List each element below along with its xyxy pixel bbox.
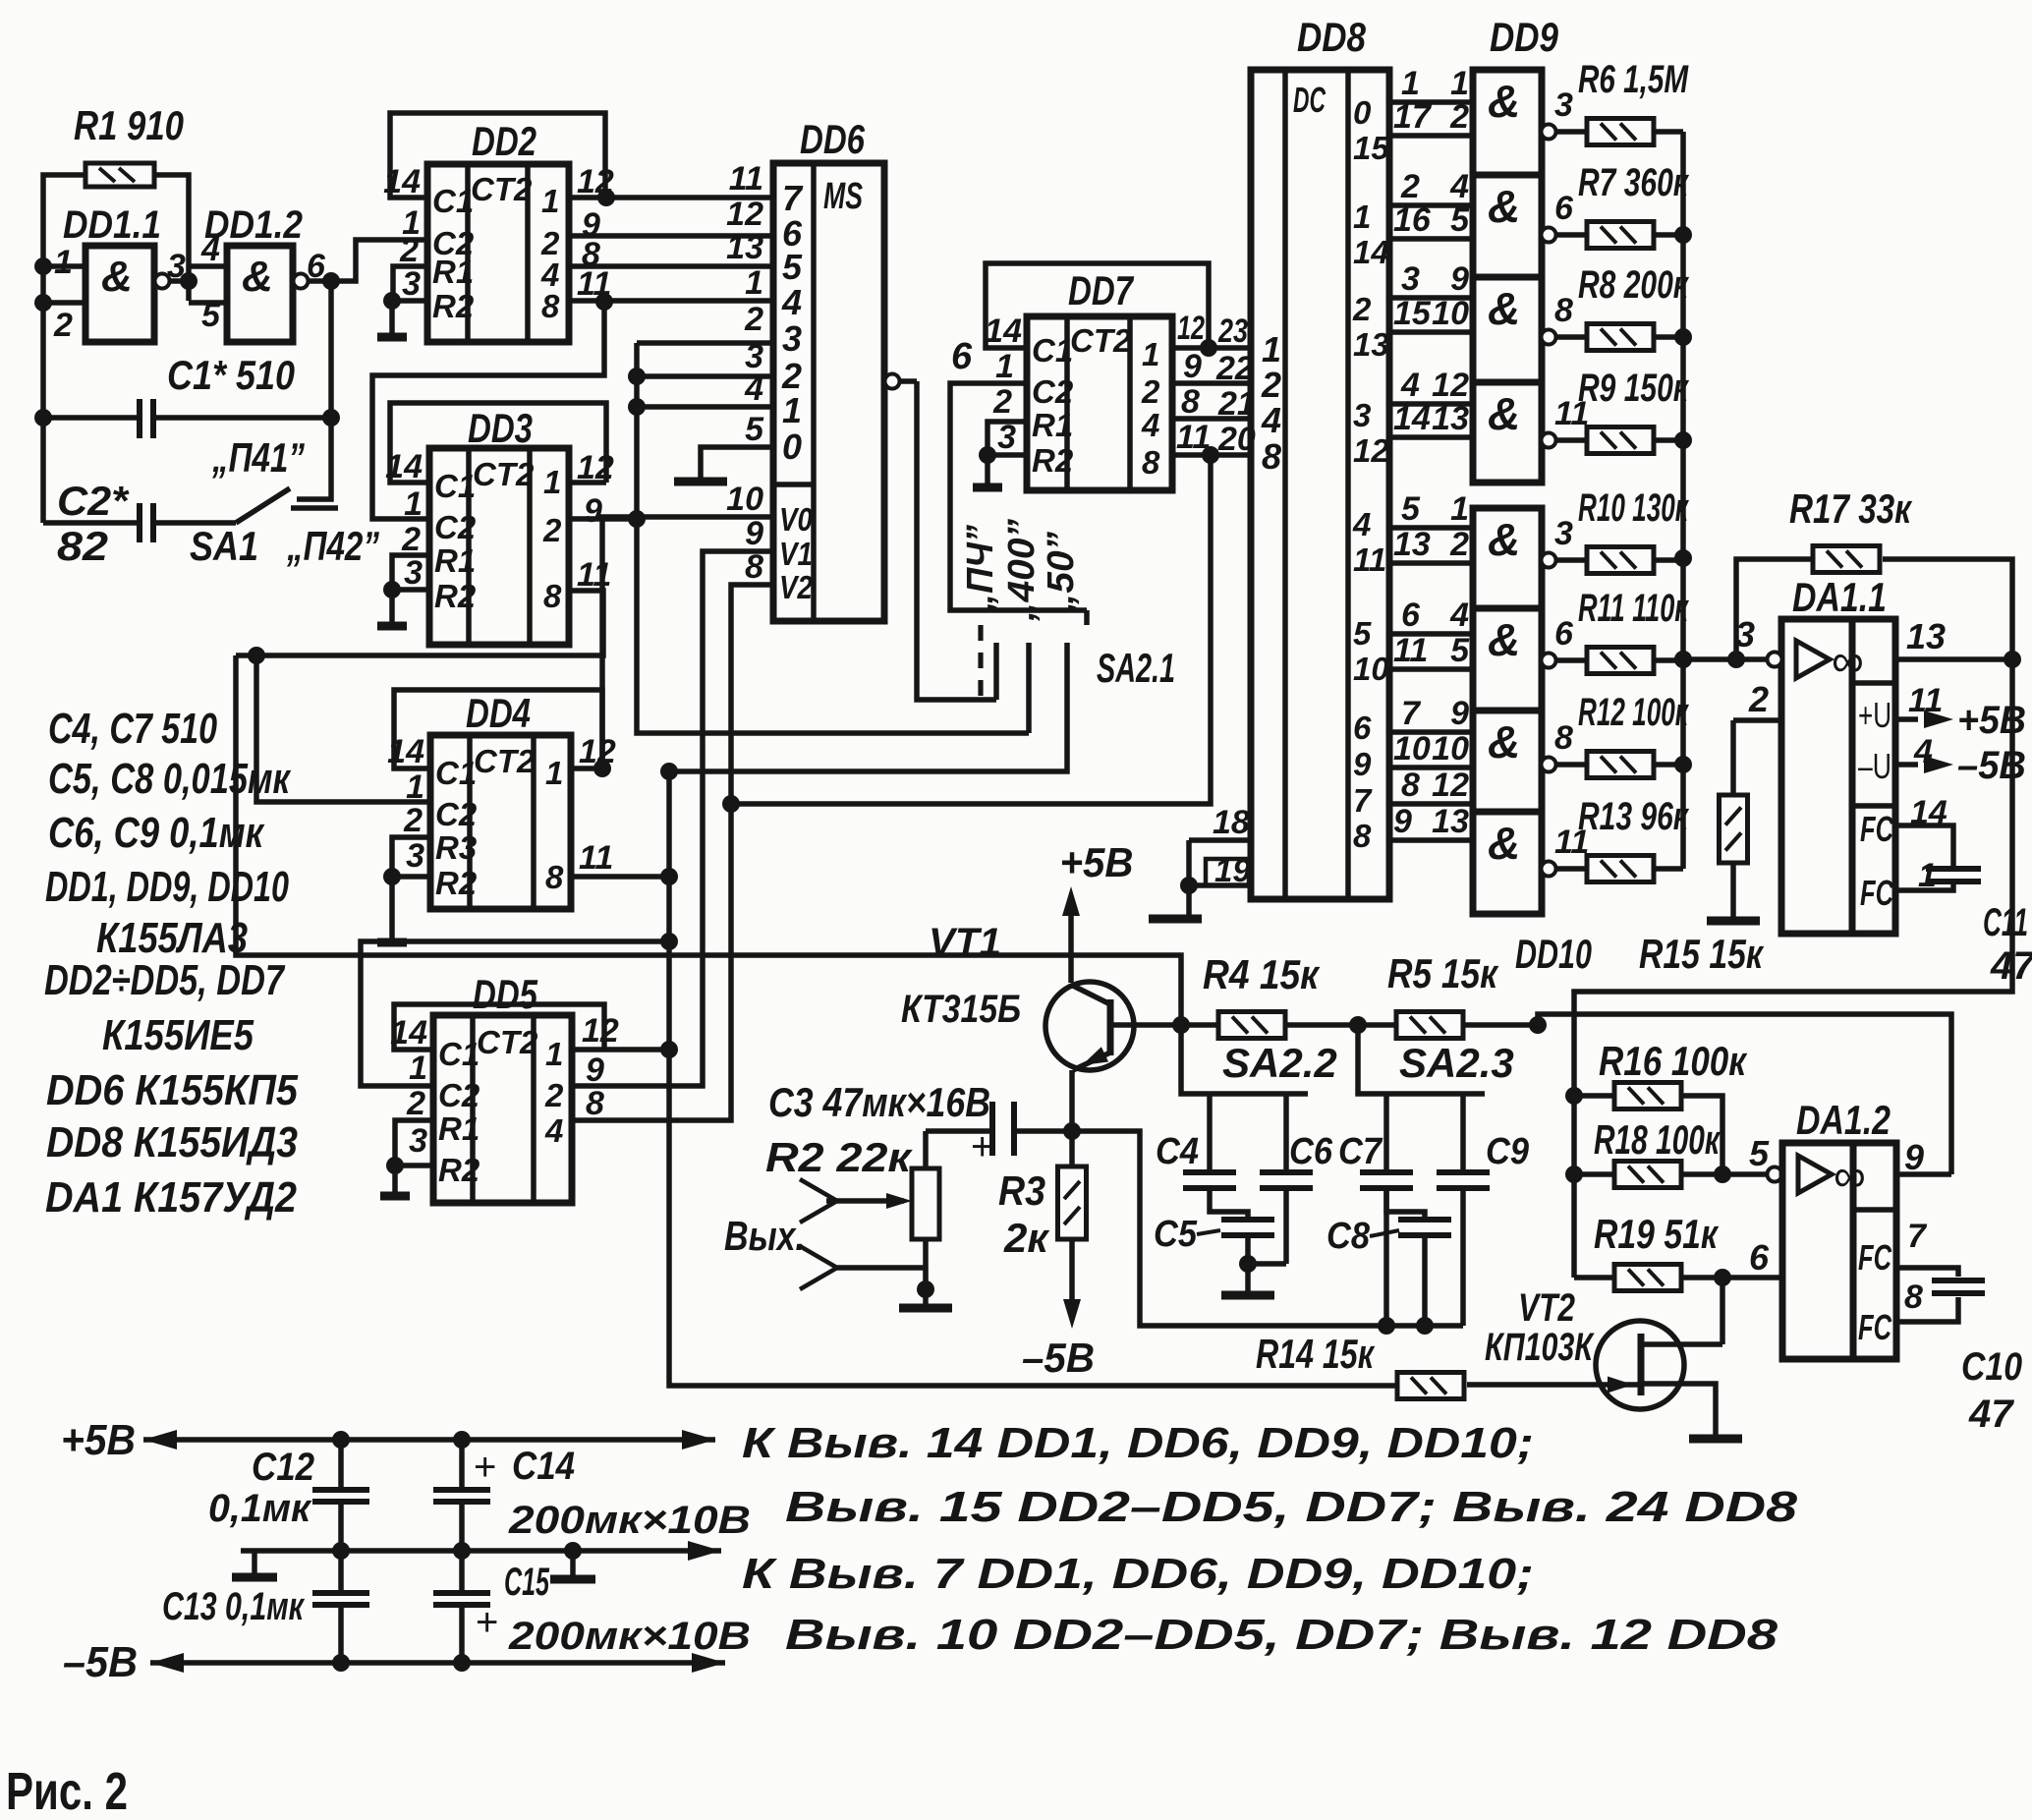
svg-text:9: 9 xyxy=(1904,1137,1924,1177)
svg-text:+: + xyxy=(476,1601,498,1644)
svg-text:DD1.1: DD1.1 xyxy=(63,203,161,247)
svg-text:8: 8 xyxy=(545,859,564,895)
wire R3 to -5V arrow xyxy=(1069,1239,1075,1299)
svg-text:&: & xyxy=(101,253,133,301)
wire mid rail xyxy=(241,1548,721,1554)
wire gate 4 output xyxy=(1542,433,1556,448)
capacitor C11 xyxy=(1895,825,1953,866)
svg-text:9: 9 xyxy=(1393,803,1412,840)
wire C1 row xyxy=(43,415,140,421)
capacitor C10 xyxy=(1896,1268,1958,1277)
node B xyxy=(322,272,340,290)
svg-text:R15 15к: R15 15к xyxy=(1639,931,1764,977)
svg-text:–5В: –5В xyxy=(1022,1335,1095,1381)
wire R17 loop xyxy=(1736,559,1811,659)
svg-text:47: 47 xyxy=(1968,1393,2014,1436)
svg-text:6: 6 xyxy=(1353,710,1372,746)
svg-text:&: & xyxy=(1488,818,1520,869)
svg-text:C7: C7 xyxy=(1338,1131,1383,1172)
wire DD3 R1 R2 bracket xyxy=(392,555,429,590)
wire DD3 loop pin12 to pin14 xyxy=(569,480,606,485)
wire resistor to bus xyxy=(1654,762,1683,768)
wire DD6 input 3 xyxy=(637,340,773,346)
svg-text:1: 1 xyxy=(1262,329,1281,370)
resistor R9 xyxy=(1587,427,1654,454)
svg-text:DD2÷DD5, DD7: DD2÷DD5, DD7 xyxy=(44,956,286,1004)
svg-text:12: 12 xyxy=(1177,310,1205,347)
wire DD2 out 11 xyxy=(569,298,773,304)
svg-text:R16 100к: R16 100к xyxy=(1599,1038,1747,1084)
svg-text:6: 6 xyxy=(951,336,973,377)
svg-text:&: & xyxy=(1488,716,1520,768)
svg-text:11: 11 xyxy=(1353,541,1386,578)
svg-text:R1: R1 xyxy=(438,1110,480,1147)
svg-text:1: 1 xyxy=(54,244,73,281)
svg-text:2: 2 xyxy=(1449,98,1469,136)
wire -5V rail xyxy=(150,1660,725,1666)
svg-text:R1 910: R1 910 xyxy=(74,102,184,148)
svg-text:5: 5 xyxy=(1353,615,1372,652)
svg-text:К Выв. 14 DD1, DD6, DD9, DD10: К Выв. 14 DD1, DD6, DD9, DD10; xyxy=(742,1419,1534,1467)
svg-text:DD6: DD6 xyxy=(800,116,865,162)
svg-text:R6 1,5М: R6 1,5М xyxy=(1578,58,1689,101)
svg-text:„400”: „400” xyxy=(1001,519,1043,622)
wire DD2.11 to DD3.C2 xyxy=(372,302,604,519)
resistor R19 xyxy=(1614,1265,1681,1291)
svg-text:9: 9 xyxy=(1450,695,1469,732)
svg-text:10: 10 xyxy=(1353,651,1389,687)
wire VT1 emitter xyxy=(1069,1070,1075,1131)
wire resistor to bus xyxy=(1654,866,1683,872)
resistor R17 xyxy=(1813,546,1880,573)
svg-text:К Выв. 7 DD1, DD6, DD9, DD10;: К Выв. 7 DD1, DD6, DD9, DD10; xyxy=(742,1550,1534,1598)
wire DD4 R3 R2 bracket xyxy=(392,837,430,877)
wire DD8 pin18 19 ground xyxy=(1189,837,1251,843)
svg-text:6: 6 xyxy=(1401,597,1421,634)
svg-text:17: 17 xyxy=(1393,98,1433,136)
svg-text:5: 5 xyxy=(1450,201,1470,239)
svg-text:R2: R2 xyxy=(432,288,475,324)
svg-text:1: 1 xyxy=(1142,336,1159,372)
svg-text:1: 1 xyxy=(1450,65,1469,102)
ground DD7 xyxy=(985,455,990,485)
counter DD4 xyxy=(430,735,571,909)
wire resistor to bus xyxy=(1654,657,1683,663)
svg-text:V2: V2 xyxy=(779,569,814,605)
svg-text:2: 2 xyxy=(53,307,73,344)
output connector arrows xyxy=(800,1179,837,1223)
svg-text:13: 13 xyxy=(1432,400,1469,437)
svg-text:3: 3 xyxy=(409,1122,427,1160)
wire rail R4 R5 xyxy=(1137,1022,1218,1028)
svg-text:2: 2 xyxy=(1449,526,1469,563)
switch SA1 xyxy=(236,488,290,523)
svg-text:DD5: DD5 xyxy=(473,971,537,1017)
svg-text:–U: –U xyxy=(1858,746,1891,786)
svg-text:13: 13 xyxy=(726,229,763,266)
svg-text:C11: C11 xyxy=(1983,901,2028,944)
wire node B down xyxy=(328,281,334,418)
svg-text:1: 1 xyxy=(543,464,561,500)
svg-text:1: 1 xyxy=(406,768,424,806)
svg-text:0,1мк: 0,1мк xyxy=(208,1487,312,1530)
svg-text:C1: C1 xyxy=(435,755,477,791)
wire DD8 outputs to gate 4 xyxy=(1389,401,1473,407)
switch SA2.1 contact 400 xyxy=(1026,643,1032,733)
svg-text:12: 12 xyxy=(726,196,763,233)
svg-text:3: 3 xyxy=(404,554,423,592)
svg-text:C9: C9 xyxy=(1486,1131,1529,1172)
wire resistor to bus xyxy=(1654,334,1683,340)
svg-text:DD9: DD9 xyxy=(1490,14,1559,60)
svg-text:8: 8 xyxy=(586,1085,604,1122)
svg-text:&: & xyxy=(1488,283,1520,334)
switch SA2.2 xyxy=(1181,1025,1308,1094)
svg-text:–5В: –5В xyxy=(63,1638,138,1686)
wire gate 2 output xyxy=(1542,228,1556,243)
wire DD7 C2 from SA2.1 arm xyxy=(950,383,1087,610)
svg-text:C2: C2 xyxy=(438,1077,480,1113)
resistor R11 xyxy=(1587,648,1654,674)
wire C3 row xyxy=(926,1128,992,1134)
svg-text:5: 5 xyxy=(1401,490,1421,528)
svg-text:Вых.: Вых. xyxy=(724,1213,805,1259)
wire pin1 xyxy=(43,263,85,269)
svg-text:R12 100к: R12 100к xyxy=(1578,691,1689,734)
svg-text:6: 6 xyxy=(1554,190,1574,227)
svg-text:Выв. 10 DD2–DD5, DD7; Выв. 12: Выв. 10 DD2–DD5, DD7; Выв. 12 DD8 xyxy=(785,1611,1778,1659)
transistor VT1 xyxy=(1045,982,1134,1070)
svg-text:VT2: VT2 xyxy=(1518,1286,1575,1330)
wire DD2 loop pin12 to pin14 xyxy=(569,195,606,200)
svg-text:6: 6 xyxy=(1554,615,1574,653)
svg-text:12: 12 xyxy=(582,1012,619,1050)
svg-text:R1: R1 xyxy=(1032,407,1073,443)
ground DD2 xyxy=(389,301,395,335)
wire -U arrow -5V xyxy=(1895,762,1918,768)
wire DD8 outputs to gate 8 xyxy=(1389,801,1473,807)
svg-text:1: 1 xyxy=(1450,490,1469,528)
svg-text:R17 33к: R17 33к xyxy=(1789,485,1912,532)
wire gate 3 output xyxy=(1542,330,1556,345)
wire VT2 drain xyxy=(1644,1341,1722,1347)
multiplexer DD6 xyxy=(773,163,884,621)
svg-text:CT2: CT2 xyxy=(474,743,536,779)
svg-text:R1: R1 xyxy=(434,542,476,579)
wire DD4.11 to DD5 clock xyxy=(361,941,669,1086)
svg-text:4: 4 xyxy=(200,231,220,268)
svg-text:2: 2 xyxy=(1261,365,1281,405)
svg-text:13: 13 xyxy=(1353,326,1389,363)
svg-text:SA2.1: SA2.1 xyxy=(1097,645,1175,691)
svg-text:R2 22к: R2 22к xyxy=(765,1134,913,1180)
svg-text:4: 4 xyxy=(1352,506,1371,542)
wire C2 row xyxy=(43,520,140,526)
svg-text:23: 23 xyxy=(1217,313,1248,350)
svg-text:7: 7 xyxy=(1907,1218,1928,1255)
svg-text:DD7: DD7 xyxy=(1068,267,1134,313)
svg-text:–5В: –5В xyxy=(1957,744,2026,787)
wire R16 R18 join to pin5 xyxy=(1683,1096,1722,1174)
svg-text:2: 2 xyxy=(1400,168,1420,205)
svg-text:200мк×10В: 200мк×10В xyxy=(508,1499,751,1542)
svg-text:C6, C9 0,1мк: C6, C9 0,1мк xyxy=(48,809,265,857)
wire to DD2 C2 xyxy=(331,240,427,281)
svg-text:SA1: SA1 xyxy=(190,523,258,569)
svg-text:7: 7 xyxy=(782,178,804,218)
svg-text:13: 13 xyxy=(1906,616,1946,656)
svg-text:R9 150к: R9 150к xyxy=(1578,367,1689,410)
svg-text:8: 8 xyxy=(1554,292,1573,329)
wire DD6 input 2 xyxy=(637,373,773,379)
wire pin2 xyxy=(43,300,85,306)
ground SA2.2 caps xyxy=(1245,1264,1251,1294)
svg-text:SA2.3: SA2.3 xyxy=(1399,1040,1514,1086)
wire resistor to bus xyxy=(1654,437,1683,443)
counter DD3 xyxy=(429,448,569,645)
svg-text:R4 15к: R4 15к xyxy=(1203,951,1321,997)
svg-text:C13 0,1мк: C13 0,1мк xyxy=(162,1585,305,1628)
svg-text:C3 47мк×16В: C3 47мк×16В xyxy=(768,1079,990,1125)
AND gate DD10.3 xyxy=(1473,711,1542,812)
svg-text:1: 1 xyxy=(1353,199,1371,235)
wire net x681 to R14 xyxy=(669,771,1397,1386)
svg-text:5: 5 xyxy=(1450,632,1470,669)
svg-text:8: 8 xyxy=(1181,383,1200,421)
svg-text:DA1.1: DA1.1 xyxy=(1792,574,1887,620)
resistor R4 xyxy=(1218,1012,1285,1039)
svg-text:+5В: +5В xyxy=(1957,699,2026,742)
svg-text:4: 4 xyxy=(781,282,802,322)
svg-text:CT2: CT2 xyxy=(471,171,533,207)
capacitor C15 xyxy=(459,1551,465,1593)
svg-text:1: 1 xyxy=(409,1050,427,1087)
svg-text:8: 8 xyxy=(1262,436,1281,477)
svg-text:1: 1 xyxy=(1401,65,1420,102)
svg-text:DD1, DD9, DD10: DD1, DD9, DD10 xyxy=(45,863,289,911)
wire DD5 out 9 to DD6 V1 xyxy=(572,551,773,1086)
svg-text:C2: C2 xyxy=(435,796,478,832)
svg-text:1: 1 xyxy=(745,264,763,302)
svg-text:9: 9 xyxy=(1450,260,1469,298)
svg-text:R2: R2 xyxy=(434,578,477,614)
wire VT2 source to ground xyxy=(1644,1384,1716,1437)
svg-text:К155ЛА3: К155ЛА3 xyxy=(96,914,248,962)
svg-text:10: 10 xyxy=(726,481,763,518)
wire DD6.6 to SA2.1 contact PCH xyxy=(917,381,996,700)
svg-text:CT2: CT2 xyxy=(1070,322,1132,359)
svg-text:2: 2 xyxy=(406,1085,425,1122)
wire +U arrow +5V xyxy=(1895,716,1918,722)
resistor R6 xyxy=(1587,119,1654,145)
svg-text:47: 47 xyxy=(1990,944,2032,988)
wire R19 to pin6 xyxy=(1683,1275,1782,1280)
svg-text:15: 15 xyxy=(1353,130,1389,166)
wire DD5 out 12 xyxy=(604,1047,669,1052)
wire DD4 loop xyxy=(571,766,602,771)
svg-text:DD8 К155ИД3: DD8 К155ИД3 xyxy=(46,1118,298,1166)
wire DD7 outputs to DD8 xyxy=(1209,345,1251,351)
svg-text:DD4: DD4 xyxy=(466,690,531,736)
wire emitter to bus xyxy=(1072,1131,1463,1326)
svg-text:R2: R2 xyxy=(1032,442,1074,479)
wire DD4 out 11 xyxy=(571,874,669,880)
svg-text:11: 11 xyxy=(729,160,763,198)
svg-text:R3: R3 xyxy=(998,1167,1045,1214)
svg-text:12: 12 xyxy=(1432,367,1469,404)
capacitor C8 xyxy=(1398,1217,1451,1223)
svg-text:„П42”: „П42” xyxy=(286,523,379,569)
svg-text:V1: V1 xyxy=(779,536,813,572)
svg-text:VT1: VT1 xyxy=(929,921,1001,964)
wire DD7.20 to net x744 xyxy=(731,455,1211,804)
capacitor C13 xyxy=(338,1551,344,1593)
svg-text:C2*: C2* xyxy=(57,478,130,524)
svg-text:C1: C1 xyxy=(432,183,474,219)
wire R2 bottom xyxy=(923,1239,929,1289)
wire DD8 outputs to gate 6 xyxy=(1389,631,1473,637)
switch SA2.3 xyxy=(1358,1025,1485,1094)
svg-text:8: 8 xyxy=(1401,767,1420,804)
resistor R16 xyxy=(1614,1083,1681,1109)
svg-text:&: & xyxy=(1488,614,1520,665)
wire gate 8 output xyxy=(1542,862,1556,877)
svg-text:C1* 510: C1* 510 xyxy=(167,352,295,398)
svg-text:&: & xyxy=(1488,388,1520,439)
wire gate 1 output xyxy=(1542,125,1556,140)
decoder DD8 xyxy=(1251,70,1389,899)
counter DD7 xyxy=(1027,316,1172,490)
resistor R5 xyxy=(1396,1012,1463,1039)
wire resistor to bus xyxy=(1654,232,1683,238)
svg-text:DD2: DD2 xyxy=(472,118,536,164)
svg-text:16: 16 xyxy=(1393,201,1432,239)
svg-text:3: 3 xyxy=(1735,614,1755,654)
svg-text:4: 4 xyxy=(1400,367,1420,404)
svg-text:∞: ∞ xyxy=(1832,635,1864,686)
wire DA1.2 output 9 xyxy=(1896,1171,1951,1177)
svg-text:C4: C4 xyxy=(1156,1131,1199,1172)
resistor R14 xyxy=(1397,1373,1464,1399)
svg-text:CT2: CT2 xyxy=(477,1024,538,1060)
svg-text:1: 1 xyxy=(545,755,563,791)
svg-text:DD8: DD8 xyxy=(1297,14,1367,60)
wire R14 to VT2 gate xyxy=(1467,1382,1638,1388)
svg-text:R2: R2 xyxy=(435,865,478,901)
svg-text:5: 5 xyxy=(745,411,764,448)
svg-text:DA1.2: DA1.2 xyxy=(1796,1097,1891,1143)
wire gate 5 output xyxy=(1542,553,1556,568)
svg-text:C1: C1 xyxy=(1032,332,1073,369)
svg-text:10: 10 xyxy=(1432,730,1469,768)
wire DD6 input 0 ground xyxy=(701,447,773,481)
svg-text:MS: MS xyxy=(823,176,863,217)
resistor R10 xyxy=(1587,547,1654,574)
node A xyxy=(180,272,198,290)
svg-text:14: 14 xyxy=(1393,400,1431,437)
svg-text:3: 3 xyxy=(1554,86,1573,124)
svg-text:C2: C2 xyxy=(1032,373,1074,410)
wire +5V rail xyxy=(143,1437,715,1443)
svg-text:9: 9 xyxy=(1183,348,1202,385)
capacitor C14 xyxy=(459,1440,465,1490)
svg-text:8: 8 xyxy=(541,288,560,324)
wire DD8 outputs to gate 3 xyxy=(1389,295,1473,301)
svg-text:1: 1 xyxy=(782,390,802,430)
svg-text:7: 7 xyxy=(1353,782,1373,819)
svg-text:4: 4 xyxy=(1141,407,1159,443)
AND gate DD9.4 xyxy=(1473,382,1542,483)
svg-text:2к: 2к xyxy=(1003,1215,1049,1261)
svg-text:R7 360к: R7 360к xyxy=(1578,161,1689,204)
capacitor C7 xyxy=(1383,1094,1389,1172)
svg-text:3: 3 xyxy=(782,318,802,359)
svg-text:8: 8 xyxy=(1904,1279,1923,1316)
svg-text:2: 2 xyxy=(1352,291,1372,327)
wire resistor to bus xyxy=(1654,129,1683,135)
svg-text:R11 110к: R11 110к xyxy=(1578,587,1689,630)
ground DD5 xyxy=(392,1166,398,1194)
svg-text:&: & xyxy=(1488,181,1520,232)
wire R16 R18 R19 left bus xyxy=(1574,1093,1614,1099)
svg-text:R1: R1 xyxy=(432,254,474,290)
svg-text:C2: C2 xyxy=(434,509,477,545)
wire DD3 out 9 xyxy=(569,516,637,522)
svg-text:R18 100к: R18 100к xyxy=(1594,1116,1721,1163)
svg-text:200мк×10В: 200мк×10В xyxy=(508,1615,751,1658)
svg-text:R19 51к: R19 51к xyxy=(1594,1211,1719,1257)
wire gate 7 output xyxy=(1542,758,1556,772)
svg-text:FC: FC xyxy=(1860,809,1894,849)
svg-text:3: 3 xyxy=(1554,515,1573,552)
svg-text:C6: C6 xyxy=(1289,1131,1333,1172)
capacitor C9 xyxy=(1460,1094,1466,1172)
gate DD1.1 xyxy=(85,246,154,342)
wire DD6 output 6 xyxy=(900,378,917,384)
svg-text:DD6 К155КП5: DD6 К155КП5 xyxy=(46,1066,298,1114)
svg-text:1: 1 xyxy=(404,485,423,523)
wire DD4.12 to DD6 V0 xyxy=(602,517,773,768)
svg-text:8: 8 xyxy=(745,548,763,586)
wire DD2 out 9 xyxy=(569,233,773,239)
svg-text:DD3: DD3 xyxy=(468,405,533,451)
svg-text:C10: C10 xyxy=(1961,1345,2022,1389)
wire DA1.1 pin2 input xyxy=(1733,717,1781,723)
svg-text:12: 12 xyxy=(1432,767,1469,804)
svg-text:R14 15к: R14 15к xyxy=(1256,1331,1375,1377)
wire DD2.12 to DD6 xyxy=(606,195,773,200)
svg-text:4: 4 xyxy=(1449,168,1469,205)
svg-text:R2: R2 xyxy=(438,1152,480,1188)
svg-text:12: 12 xyxy=(1353,432,1389,469)
wire SA2.1 contact 50 feed xyxy=(669,643,1067,771)
wire DD6 input 1 xyxy=(637,404,773,410)
svg-text:10: 10 xyxy=(1393,730,1431,768)
wire DD8 outputs to gate 2 xyxy=(1389,202,1473,208)
svg-text:8: 8 xyxy=(543,578,562,614)
AND gate DD9.2 xyxy=(1473,175,1542,277)
svg-text:5: 5 xyxy=(1749,1133,1770,1173)
svg-text:3: 3 xyxy=(402,265,421,303)
resistor R13 xyxy=(1587,856,1654,882)
svg-text:+U: +U xyxy=(1858,695,1891,735)
AND gate DD9.3 xyxy=(1473,277,1542,382)
svg-text:2: 2 xyxy=(744,301,763,338)
wire SA1 fixed contact xyxy=(297,418,331,499)
wire xyxy=(154,175,189,301)
svg-text:13: 13 xyxy=(1393,526,1431,563)
AND gate DD10.1 xyxy=(1473,508,1542,608)
